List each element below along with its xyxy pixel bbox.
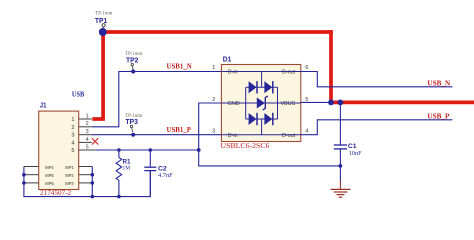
D1 internal bottom line (221, 134, 300, 136)
svg-text:2: 2 (71, 125, 74, 131)
svg-text:10nF: 10nF (349, 150, 362, 157)
wire left MP bus vertical (24, 167, 119, 197)
wire D1 pin2 GND (199, 103, 341, 166)
svg-text:3: 3 (212, 128, 215, 134)
junction dot C2 top (149, 148, 153, 152)
svg-text:J1: J1 (40, 101, 47, 110)
wire VBUS thick red right horizontal to edge (329, 101, 474, 105)
wire bottom shield rail (119, 171, 150, 197)
diode D1a (249, 81, 257, 93)
junction dot VBUS corner (328, 100, 334, 106)
wire VBUS thick red top horizontal (101, 30, 332, 34)
svg-text:6: 6 (305, 65, 308, 71)
pin MP5 of J1 (24, 174, 39, 176)
svg-text:D1: D1 (223, 55, 232, 64)
testpoint TP2 (125, 52, 142, 69)
D1 stem bottom (261, 119, 263, 135)
svg-text:4.7nF: 4.7nF (158, 172, 173, 179)
resistor R1 (116, 150, 131, 197)
D1 internal row1 line (246, 86, 278, 88)
svg-text:2: 2 (86, 121, 89, 127)
junction dots left MP bus (22, 173, 26, 177)
svg-text:MP5: MP5 (45, 173, 54, 178)
wire D1 pin6 to USB_N (301, 72, 453, 87)
pin 5 of J1 (79, 149, 96, 151)
svg-text:VBUS: VBUS (281, 101, 296, 107)
svg-text:1: 1 (86, 113, 89, 119)
svg-text:2: 2 (212, 97, 215, 103)
pin 2 of J1 (79, 126, 92, 128)
wire D1 pin5 to VBUS (301, 101, 331, 103)
svg-text:5: 5 (71, 148, 74, 154)
junction TP1 dot (99, 28, 107, 36)
wire VBUS thick red vertical TP1 to J1 pin1 (101, 32, 105, 119)
D1 stem top (261, 72, 263, 88)
junction dot C1 bottom (339, 164, 343, 168)
svg-text:USBLC6-2SC6: USBLC6-2SC6 (221, 141, 270, 150)
svg-text:USB1_N: USB1_N (167, 64, 192, 71)
svg-text:MP3: MP3 (65, 181, 74, 186)
wire right MP bus vertical (91, 167, 93, 197)
wire VBUS thick red short horizontal into J1 pin1 (92, 117, 105, 121)
svg-text:4: 4 (71, 140, 74, 146)
junction TP2 dot (131, 69, 135, 73)
wire D1 pin4 to USB_P (301, 120, 453, 135)
svg-text:5: 5 (86, 144, 89, 150)
pin MP6 of J1 (24, 182, 39, 184)
D1 internal left rail (245, 87, 247, 119)
pin MP2 of J1 (79, 174, 93, 176)
diode D1c (249, 113, 257, 125)
diode D1d (264, 113, 272, 125)
junction dot C1 tap (338, 100, 344, 106)
pin MP3 of J1 (79, 182, 93, 184)
svg-text:MP2: MP2 (65, 173, 74, 178)
pin 3 of J1 (79, 134, 92, 136)
wire USB1_N (92, 72, 222, 127)
D1 internal middle line (221, 102, 300, 104)
svg-text:5: 5 (305, 97, 308, 103)
svg-text:D-in: D-in (228, 70, 238, 76)
connector J1 body (39, 111, 79, 189)
ESD protection D1 body (221, 65, 300, 142)
svg-text:USB1_P: USB1_P (167, 127, 192, 134)
svg-text:1: 1 (71, 117, 74, 123)
svg-text:TP1: TP1 (95, 16, 107, 25)
svg-text:D-out: D-out (282, 133, 296, 139)
junction dots right MP bus (91, 173, 95, 177)
D1 internal right rail (277, 87, 279, 119)
pin 1 of J1 (79, 118, 92, 120)
svg-text:D-out: D-out (282, 70, 296, 76)
svg-text:4: 4 (86, 137, 89, 143)
svg-text:MP1: MP1 (65, 165, 74, 170)
svg-text:USB_N: USB_N (427, 79, 451, 87)
zener diode D1z (257, 96, 268, 110)
testpoint TP3 (125, 114, 142, 132)
pin 4 of J1 (79, 141, 92, 143)
testpoint TP1 (95, 12, 113, 29)
capacitor C2 (144, 150, 173, 197)
diode D1b (264, 81, 272, 93)
D1 internal row3 line (246, 118, 278, 120)
D1 internal top line (221, 71, 300, 73)
svg-text:USB_P: USB_P (427, 112, 450, 120)
svg-text:3: 3 (71, 133, 74, 139)
wire GND rail from J1 pin5 (96, 149, 199, 151)
junction dot R1 bottom (117, 195, 121, 199)
junction TP3 dot (131, 133, 135, 137)
svg-text:D-in: D-in (228, 133, 238, 139)
no-connect X on J1 pin 4 (92, 138, 98, 144)
svg-text:MP4: MP4 (45, 165, 54, 170)
ground symbol (331, 166, 351, 197)
pin MP4 of J1 (24, 166, 39, 168)
svg-text:2174507-2: 2174507-2 (40, 189, 72, 197)
svg-text:1M: 1M (123, 165, 131, 172)
junction dot GND rail / D1 pin2 (197, 148, 201, 152)
capacitor C1 (334, 102, 362, 165)
wire USB1_P (92, 134, 222, 136)
svg-text:MP6: MP6 (45, 181, 54, 186)
wire VBUS thick red right vertical (329, 30, 333, 102)
svg-text:USB: USB (72, 90, 84, 98)
svg-text:1: 1 (212, 65, 215, 71)
junction dot R1 top (117, 148, 121, 152)
pin MP1 of J1 (79, 166, 93, 168)
svg-text:3: 3 (86, 129, 89, 135)
svg-text:TP3: TP3 (126, 117, 138, 126)
svg-text:C1: C1 (348, 143, 357, 150)
svg-text:GND: GND (228, 101, 240, 107)
